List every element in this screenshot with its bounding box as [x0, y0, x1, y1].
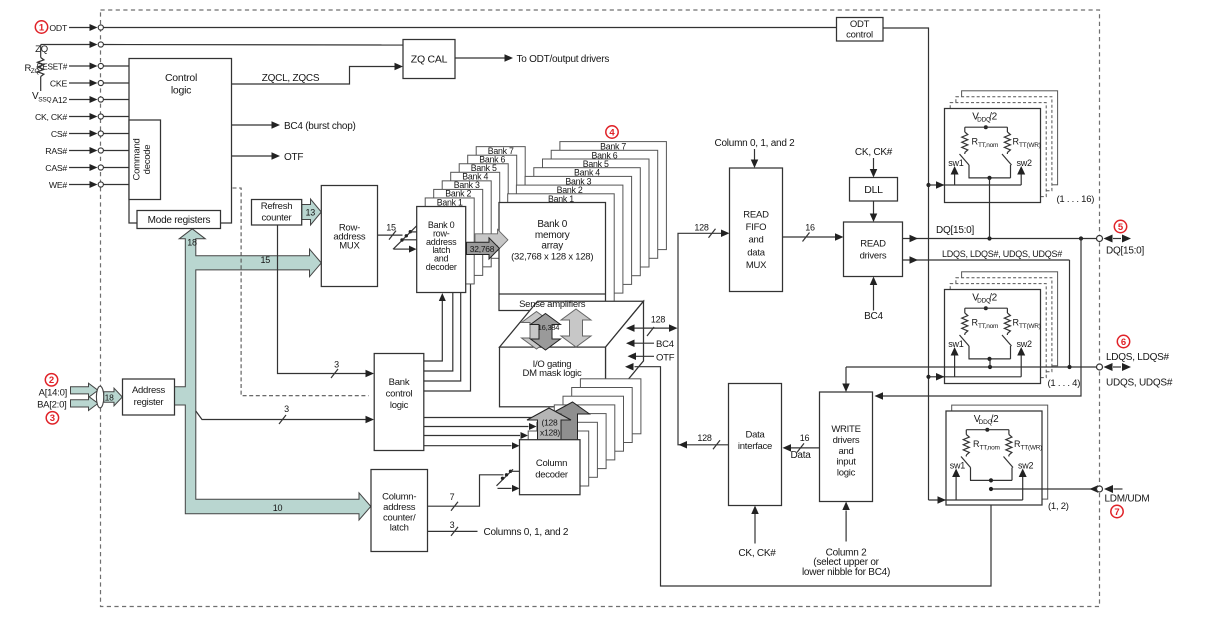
svg-text:OTF: OTF — [656, 352, 675, 363]
svg-text:decoder: decoder — [535, 470, 568, 481]
svg-text:ZQCL, ZQCS: ZQCL, ZQCS — [262, 73, 320, 84]
svg-text:/2: /2 — [991, 414, 1000, 425]
svg-text:decode: decode — [142, 145, 153, 175]
svg-text:5: 5 — [1118, 222, 1124, 233]
svg-text:(128: (128 — [541, 417, 558, 427]
svg-text:register: register — [134, 397, 164, 408]
svg-text:Bank 1: Bank 1 — [437, 197, 463, 207]
svg-text:counter/: counter/ — [383, 512, 416, 523]
svg-text:CAS#: CAS# — [45, 163, 67, 173]
svg-text:(1 . . . 16): (1 . . . 16) — [1057, 194, 1095, 205]
svg-text:/2: /2 — [989, 293, 998, 304]
svg-text:drivers: drivers — [860, 251, 887, 262]
svg-text:WE#: WE# — [49, 180, 67, 190]
svg-text:sw2: sw2 — [1017, 158, 1032, 168]
svg-text:BC4: BC4 — [864, 311, 883, 322]
svg-text:CK, CK#: CK, CK# — [738, 548, 776, 559]
svg-text:18: 18 — [105, 393, 114, 403]
svg-text:BC4: BC4 — [656, 339, 674, 350]
svg-text:logic: logic — [171, 85, 191, 97]
svg-text:128: 128 — [694, 222, 709, 232]
svg-text:counter: counter — [262, 213, 292, 224]
svg-text:MUX: MUX — [339, 241, 360, 252]
svg-text:TT(WR): TT(WR) — [1019, 142, 1041, 149]
svg-text:Data: Data — [745, 430, 765, 441]
svg-text:WRITE: WRITE — [831, 424, 860, 435]
svg-text:(1 . . . 4): (1 . . . 4) — [1048, 378, 1081, 389]
svg-text:4: 4 — [609, 127, 615, 138]
svg-text:ZQ CAL: ZQ CAL — [411, 54, 448, 66]
svg-text:sw2: sw2 — [1018, 461, 1033, 471]
svg-text:LDQS, LDQS#: LDQS, LDQS# — [1106, 352, 1170, 363]
svg-text:CKE: CKE — [50, 79, 68, 89]
svg-text:Command: Command — [132, 138, 143, 180]
svg-text:TT(WR): TT(WR) — [1021, 445, 1043, 452]
svg-text:data: data — [747, 247, 765, 258]
svg-text:6: 6 — [1121, 337, 1126, 348]
svg-text:A[14:0]: A[14:0] — [39, 388, 67, 399]
svg-text:READ: READ — [743, 210, 769, 221]
svg-text:sw1: sw1 — [950, 461, 965, 471]
svg-text:3: 3 — [284, 404, 289, 414]
svg-text:10: 10 — [273, 503, 283, 513]
svg-text:Bank 0: Bank 0 — [537, 219, 567, 230]
svg-text:18: 18 — [187, 238, 197, 248]
svg-text:16,384: 16,384 — [538, 323, 560, 332]
svg-text:Column 0, 1, and 2: Column 0, 1, and 2 — [715, 138, 796, 149]
svg-text:and: and — [838, 446, 853, 457]
svg-text:A12: A12 — [52, 95, 67, 105]
svg-text:memory: memory — [535, 230, 570, 241]
svg-text:DM mask logic: DM mask logic — [522, 368, 582, 379]
svg-text:TT(WR): TT(WR) — [1019, 323, 1041, 330]
svg-text:16: 16 — [800, 433, 810, 443]
svg-text:TT,nom: TT,nom — [978, 142, 998, 149]
svg-text:Refresh: Refresh — [261, 201, 293, 212]
svg-text:FIFO: FIFO — [746, 222, 767, 233]
svg-text:array: array — [541, 241, 563, 252]
svg-text:/2: /2 — [989, 112, 998, 123]
svg-text:sw1: sw1 — [948, 158, 963, 168]
svg-text:15: 15 — [386, 223, 396, 233]
svg-text:CS#: CS# — [51, 129, 68, 139]
svg-text:3: 3 — [334, 360, 339, 370]
svg-text:128: 128 — [697, 433, 712, 443]
svg-text:7: 7 — [450, 492, 455, 502]
svg-text:Address: Address — [132, 385, 166, 396]
svg-text:MUX: MUX — [746, 260, 767, 271]
svg-text:TT,nom: TT,nom — [978, 323, 998, 330]
svg-text:address: address — [383, 502, 416, 513]
svg-text:BC4 (burst chop): BC4 (burst chop) — [284, 121, 356, 132]
svg-text:Columns 0, 1, and 2: Columns 0, 1, and 2 — [484, 527, 569, 538]
svg-text:lower nibble for BC4): lower nibble for BC4) — [802, 567, 890, 578]
svg-text:control: control — [386, 389, 413, 400]
svg-text:and: and — [748, 235, 763, 246]
svg-text:13: 13 — [306, 208, 316, 218]
svg-text:Mode registers: Mode registers — [148, 215, 211, 226]
svg-text:ODT: ODT — [49, 23, 68, 33]
svg-text:sw1: sw1 — [948, 339, 963, 349]
svg-text:DQ[15:0]: DQ[15:0] — [1106, 246, 1144, 257]
svg-text:logic: logic — [837, 468, 856, 479]
svg-text:CK, CK#: CK, CK# — [35, 112, 67, 122]
svg-text:DLL: DLL — [864, 184, 883, 196]
svg-text:CK, CK#: CK, CK# — [855, 147, 893, 158]
svg-text:x128): x128) — [540, 428, 560, 438]
svg-text:READ: READ — [860, 239, 886, 250]
svg-text:Column: Column — [536, 458, 567, 469]
svg-text:latch: latch — [390, 523, 409, 534]
svg-text:128: 128 — [651, 315, 666, 325]
svg-text:BA[2:0]: BA[2:0] — [37, 399, 66, 410]
svg-text:(1, 2): (1, 2) — [1048, 501, 1069, 512]
svg-text:3: 3 — [450, 520, 455, 530]
svg-text:sw2: sw2 — [1017, 339, 1032, 349]
svg-text:DQ[15:0]: DQ[15:0] — [936, 225, 974, 236]
svg-text:7: 7 — [1114, 507, 1119, 518]
svg-text:ODT: ODT — [850, 19, 870, 30]
svg-text:To ODT/output drivers: To ODT/output drivers — [517, 54, 610, 65]
svg-text:UDQS, UDQS#: UDQS, UDQS# — [1106, 378, 1173, 389]
svg-text:drivers: drivers — [833, 435, 860, 446]
svg-text:control: control — [846, 30, 873, 41]
svg-text:15: 15 — [261, 255, 271, 265]
svg-text:Control: Control — [165, 72, 197, 84]
svg-text:16: 16 — [805, 223, 815, 233]
svg-text:Column-: Column- — [382, 492, 416, 503]
svg-text:TT,nom: TT,nom — [980, 445, 1000, 452]
svg-text:3: 3 — [50, 413, 55, 424]
svg-text:Bank: Bank — [389, 377, 410, 388]
svg-text:32,768: 32,768 — [470, 244, 495, 254]
svg-text:1: 1 — [39, 22, 45, 33]
svg-text:Data: Data — [790, 450, 811, 461]
svg-text:SSQ: SSQ — [38, 97, 51, 104]
svg-text:OTF: OTF — [284, 152, 303, 163]
svg-text:decoder: decoder — [426, 262, 457, 272]
svg-text:2: 2 — [49, 375, 54, 386]
svg-text:Sense amplifiers: Sense amplifiers — [519, 299, 586, 310]
svg-text:LDM/UDM: LDM/UDM — [1105, 493, 1150, 504]
svg-text:LDQS, LDQS#, UDQS, UDQS#: LDQS, LDQS#, UDQS, UDQS# — [942, 249, 1062, 259]
svg-text:interface: interface — [738, 441, 772, 452]
svg-text:(32,768 x 128 x 128): (32,768 x 128 x 128) — [511, 252, 593, 263]
svg-text:RAS#: RAS# — [45, 146, 67, 156]
svg-text:logic: logic — [390, 400, 409, 411]
svg-text:input: input — [836, 457, 856, 468]
svg-text:ZQ: ZQ — [35, 44, 48, 55]
